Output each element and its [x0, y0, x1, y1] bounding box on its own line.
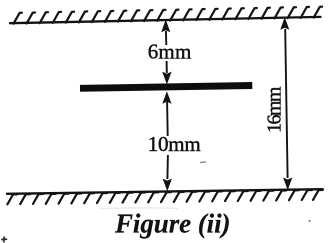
- 10mm dimension lower arrow (points down to bottom wall): [163, 155, 172, 191]
- top fixed wall surface line: [10, 17, 321, 23]
- scan speck: mark bottom-left corner: [1, 237, 7, 243]
- 16mm label (rotated): [264, 86, 286, 133]
- top wall hatching: [14, 7, 323, 24]
- 6mm label: [148, 40, 192, 64]
- caption: Figure (ii): [114, 209, 231, 239]
- 6mm dimension lower arrow (points down to plate): [162, 61, 171, 84]
- 10mm dimension upper arrow (points up to plate): [162, 91, 171, 136]
- svg-text:16mm: 16mm: [264, 86, 286, 133]
- scan speck: dot lower right: [308, 220, 310, 222]
- 16mm dimension line with arrows both ends: [280, 17, 292, 190]
- scan speck: faint dash right of 10mm label: [200, 161, 206, 164]
- svg-text:6mm: 6mm: [148, 40, 192, 64]
- bottom wall hatching: [7, 190, 322, 204]
- 10mm label: [148, 132, 201, 156]
- scan smudge below bottom hatching (very faint): [100, 207, 178, 210]
- bottom fixed wall surface line: [7, 189, 323, 194]
- svg-text:10mm: 10mm: [148, 132, 201, 156]
- svg-text:Figure (ii): Figure (ii): [114, 209, 231, 239]
- thin plate between walls: [80, 86, 252, 89]
- 6mm dimension upper arrow (points up to top wall): [161, 19, 170, 45]
